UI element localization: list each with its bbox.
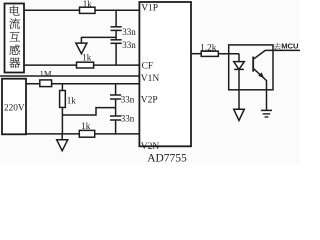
wire to MCU	[273, 49, 301, 51]
svg-text:V1N: V1N	[141, 74, 160, 84]
label 去 (to)	[274, 43, 281, 50]
transformer label char 流	[9, 18, 20, 29]
ground G3 triangle (LED return)	[234, 109, 245, 120]
resistor R1 1k (V1P)	[80, 7, 96, 13]
earth ground G4	[261, 109, 272, 111]
svg-text:AD7755: AD7755	[147, 152, 187, 164]
wire cap3-cap4 node	[115, 99, 117, 116]
wire step to cap mid-node	[62, 108, 115, 115]
svg-text:V1P: V1P	[141, 4, 158, 14]
wire V1P rail	[24, 9, 139, 11]
svg-text:1k: 1k	[67, 95, 77, 105]
current transformer box (电流互感器)	[5, 4, 25, 73]
wire cap4 to bottom rail	[115, 120, 117, 134]
capacitor C4 33n plates	[110, 115, 121, 117]
wire R6 to optocoupler	[218, 53, 239, 55]
wire bottom rail	[26, 133, 139, 135]
ground G1 triangle	[76, 43, 87, 54]
resistor R6 1.2k	[201, 51, 218, 56]
wire V2P rail	[26, 83, 139, 85]
wire ground branch	[81, 36, 116, 38]
ground G2 triangle	[57, 140, 68, 151]
capacitor C2 33n plates	[111, 39, 122, 41]
wire emitter to ground	[266, 90, 268, 111]
wire V1N rail	[0, 75, 139, 77]
transformer label char 感	[9, 45, 19, 55]
resistor R4 1k (divider)	[60, 91, 66, 108]
svg-text:V2N: V2N	[141, 142, 160, 152]
220V source box	[2, 79, 26, 135]
svg-text:220V: 220V	[4, 104, 25, 114]
wire ground stub	[80, 37, 82, 43]
wire LED anode	[238, 54, 240, 62]
resistor R2 1k (CF rail)	[77, 62, 94, 68]
Q1 emitter arrowhead	[258, 72, 264, 78]
wire ground stub 2	[61, 134, 63, 140]
svg-text:V2P: V2P	[141, 96, 158, 106]
svg-text:1k: 1k	[81, 121, 91, 131]
LED D1 triangle	[234, 62, 245, 70]
transformer label char 互	[9, 32, 19, 42]
LED D1 cathode bar	[234, 68, 244, 70]
capacitor C1 33n plates	[111, 26, 122, 28]
phototransistor Q1 collector	[253, 50, 273, 59]
svg-text:33n: 33n	[121, 95, 135, 105]
svg-text:1M: 1M	[40, 69, 52, 79]
IC U1 AD7755 body	[139, 2, 191, 146]
resistor R5 1k (bottom)	[79, 130, 94, 137]
wire R4 top stub	[61, 84, 63, 91]
svg-text:1k: 1k	[82, 53, 92, 63]
optocoupler U2 box	[229, 45, 273, 90]
wire cap1 stub	[115, 10, 117, 27]
phototransistor Q1 base bar	[252, 57, 254, 72]
wire CF rail	[24, 64, 139, 66]
svg-text:MCU: MCU	[281, 41, 299, 50]
wire cap2 to CF rail	[115, 43, 117, 65]
transformer label char 器	[9, 58, 20, 68]
transformer label char 电	[10, 5, 20, 15]
wire R4 bottom to rail	[61, 107, 63, 134]
svg-text:1k: 1k	[83, 0, 93, 9]
resistor R3 1M	[40, 80, 52, 87]
wire cap3 stub	[115, 84, 117, 95]
wire cap1-cap2 node	[115, 30, 117, 39]
svg-text:33n: 33n	[122, 27, 136, 37]
svg-text:CF: CF	[142, 62, 154, 72]
capacitor C3 33n plates	[110, 94, 121, 96]
svg-text:33n: 33n	[121, 114, 135, 124]
wire LED cathode down	[238, 69, 240, 109]
svg-text:1.2k: 1.2k	[200, 44, 217, 54]
svg-text:33n: 33n	[122, 40, 136, 50]
phototransistor Q1 emitter	[253, 68, 266, 90]
wire CF output	[191, 53, 201, 55]
